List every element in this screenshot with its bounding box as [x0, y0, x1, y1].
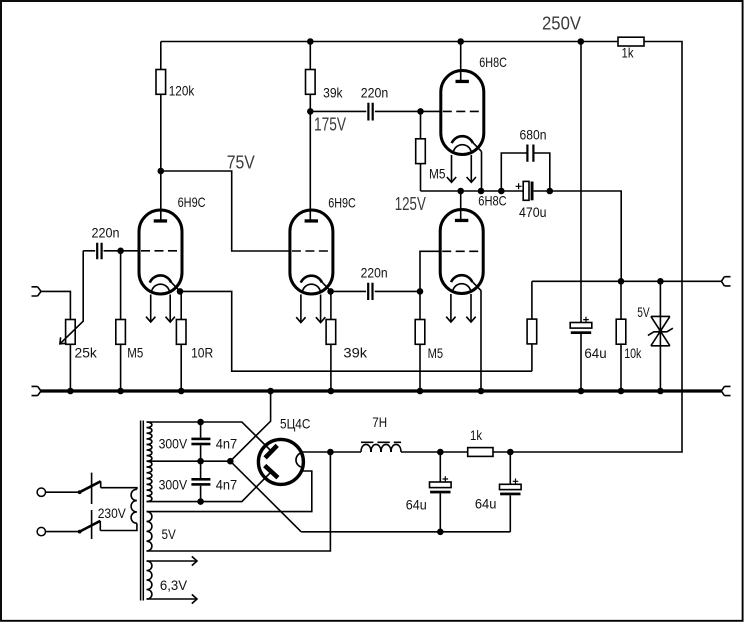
mains terminal lower	[37, 527, 45, 535]
svg-text:220n: 220n	[361, 85, 389, 101]
node 680n left leg	[498, 188, 505, 195]
svg-text:300V: 300V	[159, 435, 188, 451]
svg-text:64u: 64u	[584, 345, 606, 361]
node grid 6N8C upper	[417, 108, 424, 115]
node ground bus junction x=330.9	[328, 388, 335, 395]
node grid lower 6N8C	[417, 288, 424, 295]
node 4n7 middle	[197, 458, 204, 465]
node 680n right leg	[547, 188, 554, 195]
tube 6N9C-2 anode	[309, 219, 311, 221]
transformer secondary 300V winding 1	[147, 422, 152, 461]
node 4n7 top	[197, 419, 204, 426]
node ground bus junction x=420	[417, 388, 424, 395]
tube 6N9C-1 cathode	[150, 275, 171, 282]
resistor M5 grid leak tube4	[419, 291, 421, 319]
wire: 5V winding bottom to output node	[147, 452, 331, 551]
wire: heater return to 5V winding	[147, 471, 312, 512]
tube 6N9C-1 heater	[152, 284, 169, 290]
tube 6N9C-1 heater leads with arrows	[150, 295, 152, 323]
svg-text:7H: 7H	[372, 414, 387, 430]
resistor 1k top	[581, 41, 618, 43]
wire: 75V to grid of second 6N9C	[161, 171, 291, 251]
output terminal upper	[721, 277, 730, 286]
wire: anode lead tube4	[460, 191, 462, 220]
svg-text:120k: 120k	[169, 83, 195, 99]
svg-text:6,3V: 6,3V	[160, 577, 188, 593]
capacitor 64u filter 2	[439, 452, 441, 482]
tube 6N8C-1 heater leads with arrows	[451, 155, 453, 182]
tube 6N9C-2 grid	[292, 250, 329, 252]
svg-text:5V: 5V	[637, 304, 650, 320]
svg-text:M5: M5	[428, 345, 444, 361]
tube 6N8C-2 cathode	[451, 275, 472, 282]
node tube4 anode	[457, 188, 464, 195]
tube 6N9C-2 cathode	[301, 276, 322, 283]
wire: ground bus	[41, 389, 721, 392]
tube 6N9C-2 heater	[303, 284, 320, 290]
svg-text:220n: 220n	[361, 264, 388, 280]
svg-text:64u: 64u	[406, 497, 427, 513]
node ground bus junction x=270.6	[267, 388, 274, 395]
wire: 300V winding top lead to anode	[147, 422, 272, 451]
svg-text:M5: M5	[127, 345, 143, 361]
switch lower	[46, 531, 80, 533]
wire: output coupling down to speaker row	[550, 191, 621, 281]
wire: tube3 cathode lead	[481, 152, 483, 191]
svg-text:10k: 10k	[624, 345, 642, 361]
node 250V junction above 39k	[307, 38, 314, 45]
node ground bus junction x=481	[478, 388, 485, 395]
wire: 6.3V heater lead upper with arrow	[147, 560, 198, 562]
tube 6N9C-2 envelope	[290, 210, 333, 294]
node tube2 cathode	[327, 288, 334, 295]
svg-text:25k: 25k	[75, 345, 98, 361]
node ground bus junction x=181.2	[178, 388, 185, 395]
wire: filter negative rail	[301, 531, 510, 533]
svg-text:220n: 220n	[92, 224, 120, 240]
resistor 39k anode load	[309, 42, 311, 70]
node 64u filter 2 top	[437, 449, 444, 456]
rectifier anode plate lower	[265, 466, 278, 478]
node 250V junction above 6N8C	[457, 38, 464, 45]
input terminal lower	[32, 386, 42, 395]
node tube1 cathode	[177, 288, 184, 295]
choke 7H	[330, 451, 361, 453]
resistor 120k	[160, 42, 162, 70]
transformer secondary 6.3V winding	[147, 561, 152, 599]
input terminal upper	[32, 287, 42, 296]
svg-text:250V: 250V	[542, 14, 581, 34]
svg-text:6Н8С: 6Н8С	[478, 193, 506, 209]
node ground bus junction x=120.6	[117, 388, 124, 395]
wire: tube4 cathode to ground bus	[480, 291, 482, 392]
wire: center tap	[147, 391, 271, 461]
svg-text:6Н9С: 6Н9С	[328, 195, 356, 211]
svg-text:1k: 1k	[622, 45, 635, 61]
node 175V	[307, 108, 314, 115]
node ground bus junction x=621	[618, 388, 625, 395]
svg-text:1k: 1k	[470, 427, 483, 443]
resistor 39k tube2 cathode	[330, 291, 332, 319]
tube 6N9C-1 anode	[160, 219, 162, 221]
tube 6N8C-2 heater	[453, 284, 470, 290]
capacitor 220n coupling to 6N8C grid	[310, 110, 366, 112]
svg-text:64u: 64u	[475, 496, 497, 512]
node zener top	[657, 278, 664, 285]
potentiometer wiper arrow	[60, 251, 83, 344]
node center tap corner	[227, 458, 234, 465]
wire: grid riser tube4	[420, 251, 441, 291]
transformer primary 230V winding	[131, 489, 137, 523]
tube 6N8C-1 anode	[460, 80, 462, 82]
tube 6N8C-2 heater leads with arrows	[450, 294, 452, 322]
resistor M5 grid leak of upper 6N8C	[420, 111, 422, 138]
svg-text:5V: 5V	[162, 526, 177, 542]
node 250V main junction	[578, 38, 585, 45]
node rectifier output	[327, 449, 334, 456]
svg-text:175V: 175V	[314, 115, 346, 135]
switch upper	[46, 491, 80, 493]
tube 6N8C-1 heater	[454, 145, 471, 151]
capacitor 64u main filter	[570, 323, 592, 329]
svg-text:680n: 680n	[520, 127, 547, 143]
rectifier filament arc	[296, 453, 302, 468]
node ground bus junction x=581	[578, 388, 585, 395]
svg-text:M5: M5	[429, 165, 446, 181]
wire: rectifier output (cathode)	[301, 451, 330, 453]
node negative rail junction	[437, 529, 444, 536]
resistor 10R tube1 cathode	[180, 291, 182, 319]
transformer secondary 300V winding 2	[147, 461, 152, 501]
capacitor 470u (polarized)	[523, 181, 529, 200]
output terminal lower	[721, 386, 730, 395]
rectifier 5Z4S envelope	[258, 439, 303, 484]
node 75V junction	[158, 168, 165, 175]
tube 6N8C-2 grid	[442, 250, 479, 252]
svg-text:39k: 39k	[323, 85, 343, 101]
tube 6N8C-1 cathode	[452, 136, 473, 143]
capacitor 680n	[501, 153, 550, 191]
tube 6N9C-1 envelope	[139, 210, 182, 294]
resistor 1k filter	[440, 451, 467, 453]
wire: tube1 cathode to feedback loop	[180, 291, 532, 371]
capacitor 4n7 upper	[200, 422, 202, 461]
capacitor 64u filter 3	[509, 452, 511, 484]
tube 6N8C-1 envelope	[441, 71, 484, 155]
svg-text:10R: 10R	[191, 345, 213, 361]
svg-text:6Н8С: 6Н8С	[479, 54, 507, 70]
tube 6N8C-1 grid	[443, 110, 480, 112]
node tube1 grid	[117, 248, 124, 255]
node 10k top	[618, 278, 625, 285]
node 64u filter 3 top	[507, 449, 514, 456]
wire: 300V winding bottom lead to anode	[147, 472, 272, 502]
wire: 6.3V heater lead lower with arrow	[147, 598, 198, 600]
wire: output row to speaker terminal	[532, 280, 722, 282]
svg-text:39k: 39k	[343, 345, 368, 361]
wire: input to volume pot	[41, 291, 70, 319]
svg-text:125V: 125V	[395, 194, 426, 214]
svg-text:4n7: 4n7	[216, 435, 238, 451]
wire: grid stub tube1	[121, 250, 140, 252]
capacitor 4n7 lower	[200, 461, 202, 501]
wire: SRPP midpoint row	[421, 190, 524, 192]
node 4n7 bottom	[197, 498, 204, 505]
node tube3 cathode	[478, 188, 485, 195]
node ground bus junction x=70.4	[67, 388, 74, 395]
wire: top 250V rail	[161, 41, 581, 43]
wire: anode lead tube2	[309, 111, 311, 220]
svg-text:6Н9С: 6Н9С	[178, 194, 206, 210]
svg-text:5Ц4С: 5Ц4С	[280, 415, 310, 431]
svg-text:470u: 470u	[519, 204, 547, 220]
capacitor 220n coupling tube2 cathode	[331, 290, 367, 292]
mains terminal upper	[37, 488, 45, 496]
svg-text:4n7: 4n7	[216, 476, 238, 492]
tube 6N8C-2 anode	[460, 219, 462, 221]
zener 5V bidirectional	[659, 281, 661, 391]
transformer secondary 5V winding	[147, 512, 152, 551]
transformer core	[141, 421, 144, 601]
wire: diagonal center tap to negative rail	[230, 461, 301, 532]
svg-text:230V: 230V	[98, 505, 127, 521]
switch mechanical link	[91, 473, 93, 539]
svg-text:300V: 300V	[159, 476, 188, 492]
wire: anode lead tube3	[460, 42, 462, 81]
svg-text:75V: 75V	[227, 153, 255, 173]
resistor feedback (to tube1 cathode)	[531, 281, 533, 319]
potentiometer 25k	[66, 320, 76, 345]
node ground bus junction x=660.4	[657, 388, 664, 395]
resistor M5 grid leak tube1	[120, 251, 122, 320]
tube 6N8C-2 envelope	[440, 210, 483, 294]
tube 6N9C-1 grid	[141, 250, 178, 252]
capacitor 220n input coupling	[83, 250, 95, 252]
wire: B+ feed down to 64u	[580, 42, 582, 323]
resistor 10k	[620, 281, 622, 319]
tube 6N9C-2 heater leads with arrows	[300, 295, 302, 323]
rectifier anode plate upper	[265, 445, 277, 458]
